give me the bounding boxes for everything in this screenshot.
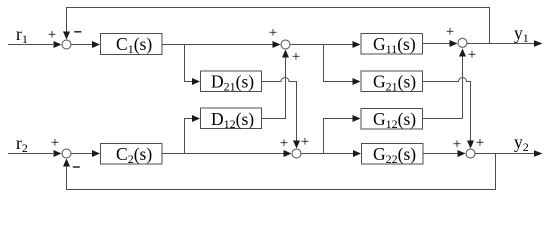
arrowhead into G22	[353, 150, 361, 157]
summing junction S2	[281, 40, 290, 49]
arrowhead feedback into S3 bottom	[63, 159, 70, 167]
svg-text:y1: y1	[514, 23, 529, 45]
arrowhead into D12	[192, 115, 200, 122]
block D12	[201, 108, 262, 129]
block G21	[361, 71, 423, 92]
svg-text:r1: r1	[16, 24, 28, 46]
wire D21 to S4 with hop over x=285	[262, 78, 297, 146]
block G22	[362, 144, 424, 165]
arrowhead y1 output	[534, 40, 543, 47]
arrowhead feedback into S1 top	[63, 32, 70, 40]
arrowhead D21 into S4 top	[293, 141, 300, 149]
svg-text:r2: r2	[16, 133, 28, 155]
arrowhead into S1	[54, 41, 62, 48]
wire r2 input	[8, 153, 53, 155]
summing junction S3	[62, 149, 71, 158]
wire S4 to G22	[301, 153, 354, 155]
arrowhead into S6	[458, 150, 466, 157]
wire S2 to G11	[290, 44, 354, 46]
svg-text:+: +	[468, 47, 476, 63]
arrowhead y2 output	[534, 150, 543, 157]
arrowhead into S5	[450, 40, 458, 47]
wire S3 to C2	[71, 153, 93, 155]
svg-text:+: +	[51, 135, 59, 151]
summing junction S1	[62, 40, 71, 49]
wire C2 to S4	[162, 153, 284, 155]
arrowhead into S2	[273, 41, 281, 48]
svg-text:C2(s): C2(s)	[116, 144, 152, 166]
arrowhead into G21	[353, 78, 361, 85]
sign minus at S1 right	[74, 31, 81, 33]
svg-text:+: +	[453, 137, 461, 153]
wire top feedback y1 to S1	[67, 8, 490, 44]
svg-text:y2: y2	[514, 132, 529, 154]
summing junction S5	[458, 38, 467, 47]
wire branch C2 out to D12	[185, 119, 193, 154]
svg-text:+: +	[301, 134, 309, 150]
svg-text:+: +	[280, 136, 288, 152]
summing junction S6	[466, 149, 475, 158]
arrowhead G12 into S5 bottom	[459, 49, 466, 57]
block C1	[101, 34, 163, 55]
wire S5 to y1 output	[467, 43, 536, 45]
arrowhead into C2	[92, 150, 100, 157]
wire branch C1 out to D21	[185, 45, 193, 82]
arrowhead into S4	[284, 150, 292, 157]
wire S6 to y2 output	[475, 153, 536, 155]
wire G22 to S6	[423, 153, 462, 155]
sign minus at S3 right	[73, 166, 80, 168]
wire branch S4 out to G12	[324, 119, 354, 154]
summing junction S4	[292, 149, 301, 158]
arrowhead into S3	[54, 150, 62, 157]
arrowhead G21 into S6 top	[467, 141, 474, 149]
wire G21 to S6 with hop over x=462	[423, 78, 471, 146]
arrowhead into G11	[353, 41, 361, 48]
svg-text:+: +	[446, 24, 454, 40]
wire G12 to S5	[423, 52, 463, 119]
svg-text:+: +	[48, 27, 56, 43]
wire S1 to C1	[71, 44, 93, 46]
wire D12 to S2	[262, 53, 286, 119]
block C2	[101, 144, 163, 165]
arrowhead into G12	[353, 115, 361, 122]
svg-text:+: +	[292, 49, 300, 65]
wire bottom feedback y2 to S3	[67, 154, 496, 190]
arrowhead into D21	[192, 78, 200, 85]
svg-text:+: +	[269, 25, 277, 41]
block D21	[201, 71, 262, 92]
wire C1 to S2	[162, 44, 273, 46]
wire G11 to S5	[423, 43, 455, 45]
wire branch S2 out to G21	[324, 45, 354, 82]
svg-text:C1(s): C1(s)	[116, 34, 152, 56]
svg-text:+: +	[476, 135, 484, 151]
block G11	[361, 34, 423, 55]
arrowhead D12 into S2 bottom	[282, 50, 289, 58]
arrowhead into C1	[92, 41, 100, 48]
block G12	[361, 109, 423, 130]
wire r1 input	[8, 44, 53, 46]
